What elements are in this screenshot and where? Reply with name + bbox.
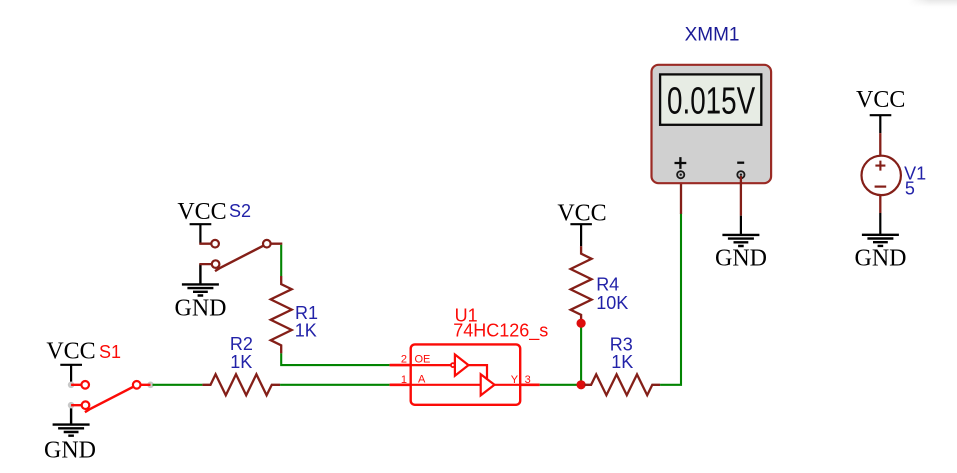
VCC symbol at V1 [870,115,892,133]
svg-text:1K: 1K [611,352,633,372]
multimeter XMM1 body [652,65,772,183]
op-amp U1 74HC126_s (selected, red) [390,344,540,404]
U1 output buffer triangle [481,374,495,395]
svg-text:GND: GND [715,246,767,272]
U1 body box [411,344,521,404]
wire U1 Y to junction [540,384,578,386]
svg-text:S1: S1 [99,342,121,362]
svg-text:R4: R4 [596,275,619,295]
svg-text:XMM1: XMM1 [685,25,740,46]
U1 internal A line [411,384,481,386]
svg-text:10K: 10K [596,293,628,313]
V1 minus mark [875,186,887,188]
wire meter - to GND [740,176,742,216]
U1 internal OE line [411,364,451,366]
VCC symbol at R4 [570,224,592,246]
XMM1 minus mark [737,162,744,164]
svg-text:VCC: VCC [856,87,905,113]
wire S2 pole down to R1 [280,245,282,276]
svg-text:GND: GND [175,296,227,322]
S2 leads [199,244,282,264]
S2 contact circles [211,240,219,248]
wire R1 to U1 pin OE [281,353,389,365]
XMM1 display [660,74,761,124]
S1 contact circles [81,381,89,389]
svg-text:S2: S2 [229,201,251,221]
svg-text:VCC: VCC [46,339,95,365]
node: S1 pin dots [68,382,75,389]
ground at S2 [182,264,219,295]
svg-text:1K: 1K [295,321,317,341]
wire meter + lead (dark red) [680,176,682,214]
svg-text:R2: R2 [230,334,253,354]
svg-text:VCC: VCC [557,200,606,226]
junction at R4 bottom [577,319,586,328]
wire R3 to meter + [660,213,681,385]
svg-text:0.015V: 0.015V [667,81,756,123]
resistor R2 [202,374,280,395]
wire V1 to GND [879,195,881,213]
U1 internal Y line [495,384,521,386]
svg-text:74HC126_s: 74HC126_s [453,321,548,342]
svg-text:OE: OE [415,354,431,366]
U1 enable link line [469,365,488,380]
junction on A line [577,380,586,389]
S1 leads [71,385,150,405]
svg-text:GND: GND [855,246,907,272]
U1 OE bubble [451,363,455,367]
wire R2 to U1 pin A [280,384,390,386]
svg-text:GND: GND [44,438,96,464]
U1 pin 2 lead [390,364,411,367]
svg-text:2: 2 [401,354,407,366]
U1 OE buffer triangle [455,355,469,376]
resistor R1 [271,276,292,353]
V1 plus mark [875,161,885,171]
svg-text:1K: 1K [230,352,252,372]
source V1 circle [862,156,901,195]
wire VCC to V1 [879,133,881,156]
XMM1 minus terminal [737,171,744,178]
svg-text:5: 5 [905,179,915,199]
S1 blade [85,385,137,412]
resistor R3 [585,374,661,395]
VCC symbol at S1 [60,365,82,385]
XMM1 plus mark [675,157,687,169]
switch S2 [199,240,282,271]
wire S1 pole to R2 [153,384,203,386]
VCC symbol at S2 [190,224,212,244]
ground at V1 [862,235,899,246]
S2 blade [215,244,267,271]
switch S1 (selected, red) [68,381,154,412]
wire R4 to A line [580,323,582,385]
svg-text:VCC: VCC [177,199,226,225]
svg-text:1: 1 [401,374,407,386]
ground at XMM1 [722,235,759,246]
corner shade [908,0,957,9]
U1 pin 1 lead [390,383,411,386]
svg-text:A: A [418,374,426,386]
svg-text:Y: Y [511,374,519,386]
ground at S1 [53,405,90,436]
U1 pin 3 lead [520,383,540,386]
XMM1 plus terminal [677,171,684,178]
resistor R4 [571,246,592,323]
svg-text:3: 3 [525,374,531,386]
